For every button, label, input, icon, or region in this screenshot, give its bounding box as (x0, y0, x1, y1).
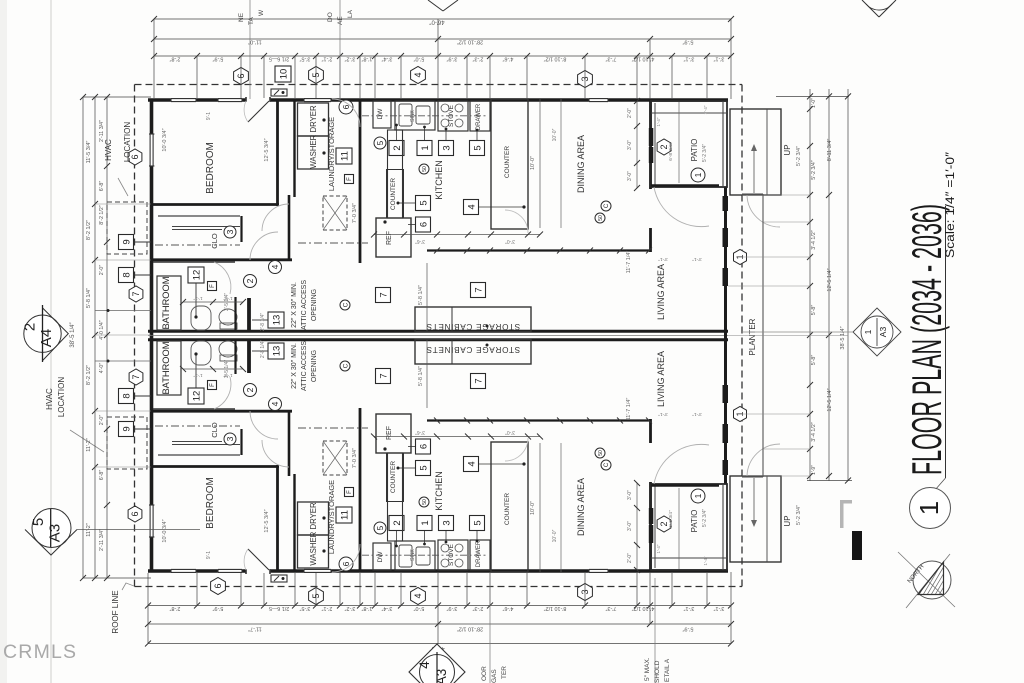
svg-text:8′-2 1/2″: 8′-2 1/2″ (86, 365, 92, 385)
svg-text:3′-1″: 3′-1″ (692, 411, 702, 417)
svg-text:3′-4″: 3′-4″ (382, 605, 393, 611)
svg-text:3′-5″: 3′-5″ (300, 605, 311, 611)
svg-text:WASHER DRYER: WASHER DRYER (309, 105, 318, 169)
svg-text:OPENING: OPENING (311, 350, 318, 382)
svg-text:2: 2 (392, 520, 403, 525)
svg-text:PATIO: PATIO (690, 510, 699, 533)
svg-text:4′-0 1/4″: 4′-0 1/4″ (99, 320, 105, 339)
svg-text:3′-1″: 3′-1″ (684, 56, 695, 62)
svg-text:2/1 6—5: 2/1 6—5 (269, 56, 289, 62)
svg-text:SHOLD: SHOLD (654, 660, 661, 683)
svg-text:4′-0″: 4′-0″ (99, 363, 105, 374)
svg-text:A3: A3 (878, 327, 888, 338)
svg-text:STOVE: STOVE (448, 543, 455, 566)
svg-text:OPENING: OPENING (311, 289, 318, 321)
svg-text:2′-3″: 2′-3″ (473, 56, 484, 62)
svg-text:A4: A4 (38, 329, 55, 347)
svg-text:BEDROOM: BEDROOM (205, 477, 216, 529)
svg-text:ATTIC ACCESS: ATTIC ACCESS (301, 280, 308, 330)
svg-text:3′-6″: 3′-6″ (415, 429, 425, 435)
svg-text:1′-4″: 1′-4″ (656, 544, 661, 553)
svg-text:5′-2 3/4″: 5′-2 3/4″ (796, 146, 802, 166)
svg-text:DW: DW (377, 108, 384, 120)
svg-text:F: F (210, 383, 216, 387)
svg-text:W: W (258, 9, 265, 16)
svg-text:1′-8″: 1′-8″ (362, 605, 373, 611)
svg-text:LIVING AREA: LIVING AREA (656, 264, 666, 320)
svg-text:4: 4 (417, 661, 432, 669)
svg-text:1′-8″: 1′-8″ (362, 56, 373, 62)
svg-text:2: 2 (245, 387, 255, 392)
svg-text:6: 6 (418, 444, 429, 449)
svg-text:FLOOR PLAN (2034 - 2036): FLOOR PLAN (2034 - 2036) (903, 204, 950, 475)
svg-text:DRAWER: DRAWER (476, 540, 482, 567)
svg-text:3′-0″: 3′-0″ (627, 171, 633, 181)
svg-text:5′-2 3/4″: 5′-2 3/4″ (702, 144, 708, 163)
svg-text:10′-0 3/4″: 10′-0 3/4″ (162, 128, 168, 151)
svg-text:2′-8″: 2′-8″ (170, 605, 181, 611)
svg-text:DW: DW (377, 551, 384, 563)
svg-text:DINING AREA: DINING AREA (576, 135, 586, 193)
svg-text:5: 5 (376, 140, 385, 145)
svg-text:3′-4 1/2″: 3′-4 1/2″ (811, 422, 817, 441)
svg-text:7: 7 (473, 287, 484, 292)
svg-text:3′-1″: 3′-1″ (692, 256, 702, 262)
svg-text:COUNTER: COUNTER (504, 146, 511, 178)
svg-text:22″ X 30″ MIN.: 22″ X 30″ MIN. (291, 343, 298, 389)
svg-text:5′-8 1/4″: 5′-8 1/4″ (86, 288, 92, 308)
svg-text:1′-4″: 1′-4″ (703, 556, 708, 565)
svg-text:COUNTER: COUNTER (390, 178, 397, 210)
svg-text:3′-1″: 3′-1″ (714, 56, 725, 62)
svg-text:1: 1 (863, 329, 873, 334)
svg-text:UP: UP (783, 144, 792, 155)
svg-text:3′-1″: 3′-1″ (684, 605, 695, 611)
svg-text:8′-10 1/2″: 8′-10 1/2″ (544, 605, 567, 611)
svg-text:10′-0″: 10′-0″ (552, 128, 558, 141)
svg-text:28′-10 1/2″: 28′-10 1/2″ (457, 626, 483, 632)
svg-text:1: 1 (420, 520, 431, 525)
svg-text:11: 11 (339, 151, 350, 161)
svg-text:7: 7 (378, 292, 389, 297)
svg-text:9: 9 (121, 239, 132, 244)
svg-text:7: 7 (473, 378, 484, 383)
svg-text:6′-8 3/4″: 6′-8 3/4″ (668, 143, 674, 161)
svg-text:3′-2″: 3′-2″ (345, 605, 356, 611)
svg-text:3′-4 1/2″: 3′-4 1/2″ (811, 230, 817, 249)
svg-text:UP: UP (783, 515, 792, 526)
svg-text:3′-6″: 3′-6″ (415, 238, 425, 244)
svg-text:3: 3 (225, 229, 235, 234)
svg-text:3′-1″: 3′-1″ (658, 411, 668, 417)
svg-text:STORAGE CABINETS: STORAGE CABINETS (426, 345, 520, 354)
svg-text:8: 8 (121, 393, 132, 398)
svg-text:BATHROOM: BATHROOM (161, 276, 171, 329)
svg-text:4: 4 (270, 401, 280, 406)
svg-text:50: 50 (598, 215, 604, 221)
svg-text:7′-0 3/4″: 7′-0 3/4″ (352, 448, 358, 468)
svg-text:4′-10 1/2″: 4′-10 1/2″ (632, 56, 655, 62)
svg-text:3′-9″: 3′-9″ (447, 605, 458, 611)
svg-text:2: 2 (22, 323, 39, 331)
svg-text:LAUNDRY/STORAGE: LAUNDRY/STORAGE (327, 117, 336, 191)
svg-text:11′-2″: 11′-2″ (86, 438, 92, 452)
svg-text:2′-3″: 2′-3″ (473, 605, 484, 611)
svg-text:6: 6 (213, 583, 223, 588)
svg-text:C: C (604, 203, 610, 208)
svg-text:5′-9″: 5′-9″ (682, 39, 693, 45)
svg-text:HVAC: HVAC (45, 388, 54, 410)
svg-text:3′-0″: 3′-0″ (505, 238, 515, 244)
svg-text:3: 3 (441, 145, 452, 150)
svg-text:1: 1 (693, 493, 703, 498)
svg-text:COUNTER: COUNTER (504, 493, 511, 525)
svg-text:SINK: SINK (410, 549, 416, 561)
svg-text:WASHER DRYER: WASHER DRYER (309, 502, 318, 566)
svg-text:11′-2″: 11′-2″ (86, 523, 92, 537)
svg-text:5: 5 (472, 520, 483, 525)
svg-text:3′-1″: 3′-1″ (714, 605, 725, 611)
svg-text:3′-9″: 3′-9″ (447, 56, 458, 62)
svg-text:A3: A3 (47, 524, 64, 542)
svg-text:5: 5 (418, 200, 429, 205)
svg-text:2/1 6—5: 2/1 6—5 (269, 605, 289, 611)
svg-text:6: 6 (130, 511, 140, 516)
svg-text:5′-9″: 5′-9″ (682, 626, 693, 632)
svg-text:1′-3″: 1′-3″ (193, 373, 203, 378)
svg-text:5′-0″: 5′-0″ (414, 56, 425, 62)
svg-text:ATTIC ACCESS: ATTIC ACCESS (301, 341, 308, 391)
svg-text:3′-0″: 3′-0″ (627, 490, 633, 500)
svg-text:8′-2 1/2″: 8′-2 1/2″ (99, 205, 105, 224)
svg-text:CLO: CLO (210, 233, 219, 249)
svg-text:2′-1″: 2′-1″ (322, 56, 333, 62)
svg-text:GAS: GAS (491, 669, 498, 683)
svg-text:2: 2 (245, 278, 255, 283)
svg-text:38′-5 1/4″: 38′-5 1/4″ (840, 326, 846, 349)
svg-text:4′-6″: 4′-6″ (503, 605, 514, 611)
svg-text:F: F (347, 490, 353, 494)
svg-text:5: 5 (472, 145, 483, 150)
svg-text:11′-7 1/4″: 11′-7 1/4″ (626, 398, 632, 421)
svg-text:9′-1: 9′-1 (206, 551, 212, 559)
svg-text:2′-0″: 2′-0″ (99, 265, 105, 276)
svg-text:LAUNDRY/STORAGE: LAUNDRY/STORAGE (327, 480, 336, 554)
svg-text:F: F (210, 284, 216, 288)
svg-text:8′-2 1/2″: 8′-2 1/2″ (86, 220, 92, 240)
svg-text:3: 3 (225, 436, 235, 441)
svg-text:CLO: CLO (210, 422, 219, 438)
svg-text:LOCATION: LOCATION (123, 122, 132, 163)
svg-text:9′-1: 9′-1 (206, 112, 212, 120)
svg-text:1: 1 (914, 501, 944, 515)
svg-text:5′-8″: 5′-8″ (811, 355, 817, 366)
svg-text:10: 10 (278, 69, 289, 80)
svg-text:C: C (342, 363, 349, 368)
svg-text:NE: NE (238, 12, 245, 22)
svg-text:6′-8″: 6′-8″ (99, 470, 105, 481)
svg-text:50: 50 (422, 166, 428, 172)
svg-text:12: 12 (191, 270, 202, 281)
svg-text:5′-2 3/4″: 5′-2 3/4″ (796, 505, 802, 525)
svg-text:6: 6 (418, 222, 429, 227)
svg-text:5′-8 1/4″: 5′-8 1/4″ (418, 366, 424, 386)
svg-text:OOR: OOR (481, 666, 488, 681)
svg-text:2′-0″: 2′-0″ (99, 415, 105, 426)
svg-text:2: 2 (659, 521, 669, 526)
svg-text:4: 4 (413, 72, 423, 77)
svg-text:1′-4″: 1′-4″ (703, 105, 708, 114)
svg-text:12: 12 (191, 391, 202, 402)
svg-text:4: 4 (413, 593, 423, 598)
svg-text:LA: LA (347, 9, 354, 18)
svg-text:50: 50 (598, 450, 604, 456)
svg-text:2′-8 1/4″: 2′-8 1/4″ (260, 340, 266, 359)
svg-text:DO: DO (327, 12, 334, 22)
svg-text:DINING AREA: DINING AREA (576, 478, 586, 536)
svg-text:LIVING AREA: LIVING AREA (656, 351, 666, 407)
svg-text:TER: TER (501, 666, 508, 679)
svg-text:2′-11 3/4″: 2′-11 3/4″ (99, 529, 105, 551)
svg-text:DRAWER: DRAWER (476, 103, 482, 130)
svg-text:8′-10 1/2″: 8′-10 1/2″ (544, 56, 567, 62)
svg-text:11′-7″: 11′-7″ (248, 626, 262, 632)
svg-text:38′-5 1/4″: 38′-5 1/4″ (70, 321, 76, 347)
svg-text:9: 9 (121, 426, 132, 431)
svg-text:7′-3″: 7′-3″ (606, 605, 617, 611)
svg-text:4′-10 1/2″: 4′-10 1/2″ (632, 605, 655, 611)
svg-text:BEDROOM: BEDROOM (205, 142, 216, 194)
svg-text:C: C (342, 302, 349, 307)
svg-text:5′-8″: 5′-8″ (811, 305, 817, 316)
svg-text:10′-0″: 10′-0″ (530, 156, 536, 170)
svg-text:1: 1 (693, 172, 703, 177)
svg-text:10′-0 3/4″: 10′-0 3/4″ (162, 519, 168, 542)
svg-text:2: 2 (392, 145, 403, 150)
svg-text:22″ X 30″ MIN.: 22″ X 30″ MIN. (291, 282, 298, 328)
svg-text:1′-9″: 1′-9″ (811, 465, 817, 475)
svg-text:2′-0″: 2′-0″ (627, 553, 633, 563)
svg-text:8′-11 3/4″: 8′-11 3/4″ (827, 139, 833, 162)
svg-text:1′-0″: 1′-0″ (811, 98, 817, 108)
svg-text:1: 1 (420, 145, 431, 150)
svg-text:STORAGE CABINETS: STORAGE CABINETS (426, 322, 520, 331)
svg-text:TA: TA (248, 17, 255, 25)
svg-text:BATHROOM: BATHROOM (161, 341, 171, 394)
svg-text:ETAIL A: ETAIL A (664, 658, 671, 682)
svg-text:12′-5 1/4″: 12′-5 1/4″ (827, 268, 833, 291)
svg-text:8: 8 (121, 272, 132, 277)
svg-text:5′-9″: 5′-9″ (213, 605, 224, 611)
svg-text:11′-7 1/4″: 11′-7 1/4″ (626, 251, 632, 274)
svg-text:5: 5 (376, 525, 385, 530)
svg-text:1′-3″: 1′-3″ (223, 296, 233, 301)
svg-text:CRMLS: CRMLS (3, 641, 77, 663)
svg-text:3: 3 (441, 520, 452, 525)
svg-text:LOCATION: LOCATION (57, 377, 66, 418)
svg-text:3′-0″: 3′-0″ (505, 429, 515, 435)
svg-text:12′-5 3/4″: 12′-5 3/4″ (264, 138, 270, 161)
svg-text:13: 13 (271, 346, 282, 357)
svg-text:13: 13 (271, 315, 282, 326)
svg-text:REF: REF (386, 426, 393, 440)
svg-text:3′-0″: 3′-0″ (627, 521, 633, 531)
svg-text:KITCHEN: KITCHEN (434, 160, 444, 200)
svg-text:5′-2 3/4″: 5′-2 3/4″ (811, 160, 817, 179)
svg-text:7: 7 (131, 374, 141, 379)
svg-text:28′-10 1/2″: 28′-10 1/2″ (457, 39, 483, 45)
svg-text:6′-8 3/4″: 6′-8 3/4″ (668, 510, 674, 528)
svg-text:12′-5 1/4″: 12′-5 1/4″ (827, 388, 833, 411)
svg-text:ROOF LINE: ROOF LINE (111, 590, 120, 633)
svg-text:7: 7 (378, 373, 389, 378)
svg-text:1′-3″: 1′-3″ (193, 296, 203, 301)
svg-text:C: C (604, 462, 610, 467)
svg-text:PATIO: PATIO (690, 139, 699, 162)
svg-text:4′-6″: 4′-6″ (503, 56, 514, 62)
svg-text:1′-3″: 1′-3″ (223, 373, 233, 378)
svg-text:2: 2 (659, 144, 669, 149)
svg-text:F: F (347, 177, 353, 181)
svg-text:A3: A3 (434, 669, 449, 683)
svg-text:3′-5″: 3′-5″ (300, 56, 311, 62)
svg-text:4: 4 (270, 264, 280, 269)
svg-text:2′-1″: 2′-1″ (322, 605, 333, 611)
svg-text:7′-3″: 7′-3″ (606, 56, 617, 62)
svg-text:6′-8″: 6′-8″ (99, 181, 105, 192)
svg-text:3′-2″: 3′-2″ (345, 56, 356, 62)
svg-text:5: 5 (30, 518, 47, 526)
svg-text:KITCHEN: KITCHEN (434, 471, 444, 511)
svg-text:10′-0″: 10′-0″ (552, 529, 558, 542)
svg-text:PLANTER: PLANTER (748, 318, 757, 355)
svg-text:3′-1″: 3′-1″ (658, 256, 668, 262)
svg-text:2′-0″: 2′-0″ (627, 108, 633, 118)
svg-text:11: 11 (339, 510, 350, 520)
svg-text:5′-8 1/4″: 5′-8 1/4″ (418, 285, 424, 305)
svg-text:5′-0″: 5′-0″ (414, 605, 425, 611)
svg-text:7: 7 (131, 291, 141, 296)
svg-text:1′-4″: 1′-4″ (656, 117, 661, 126)
svg-text:5′-9″: 5′-9″ (213, 56, 224, 62)
svg-text:50: 50 (422, 499, 428, 505)
svg-text:AE: AE (337, 16, 344, 25)
svg-text:4: 4 (466, 204, 477, 209)
svg-text:REF: REF (386, 231, 393, 245)
svg-text:5: 5 (418, 465, 429, 470)
svg-text:3′-0″: 3′-0″ (627, 140, 633, 150)
svg-text:12′-5 3/4″: 12′-5 3/4″ (264, 509, 270, 532)
svg-text:3′-4″: 3′-4″ (382, 56, 393, 62)
svg-text:HVAC: HVAC (104, 139, 113, 161)
svg-text:2′-8 1/4″: 2′-8 1/4″ (260, 313, 266, 332)
svg-text:11′-5 3/4″: 11′-5 3/4″ (86, 141, 92, 164)
svg-text:5′-2 3/4″: 5′-2 3/4″ (702, 509, 708, 528)
svg-text:4: 4 (466, 461, 477, 466)
svg-text:Scale: 1/4″ =1′-0″: Scale: 1/4″ =1′-0″ (945, 152, 957, 258)
svg-text:COUNTER: COUNTER (390, 461, 397, 493)
svg-text:7′-0 3/4″: 7′-0 3/4″ (352, 203, 358, 223)
svg-text:46′-0″: 46′-0″ (428, 19, 444, 25)
svg-text:10′-0″: 10′-0″ (530, 501, 536, 515)
svg-text:2′-11 3/4″: 2′-11 3/4″ (99, 120, 105, 142)
svg-text:5″ MAX.: 5″ MAX. (644, 657, 651, 681)
svg-text:2′-8″: 2′-8″ (170, 56, 181, 62)
